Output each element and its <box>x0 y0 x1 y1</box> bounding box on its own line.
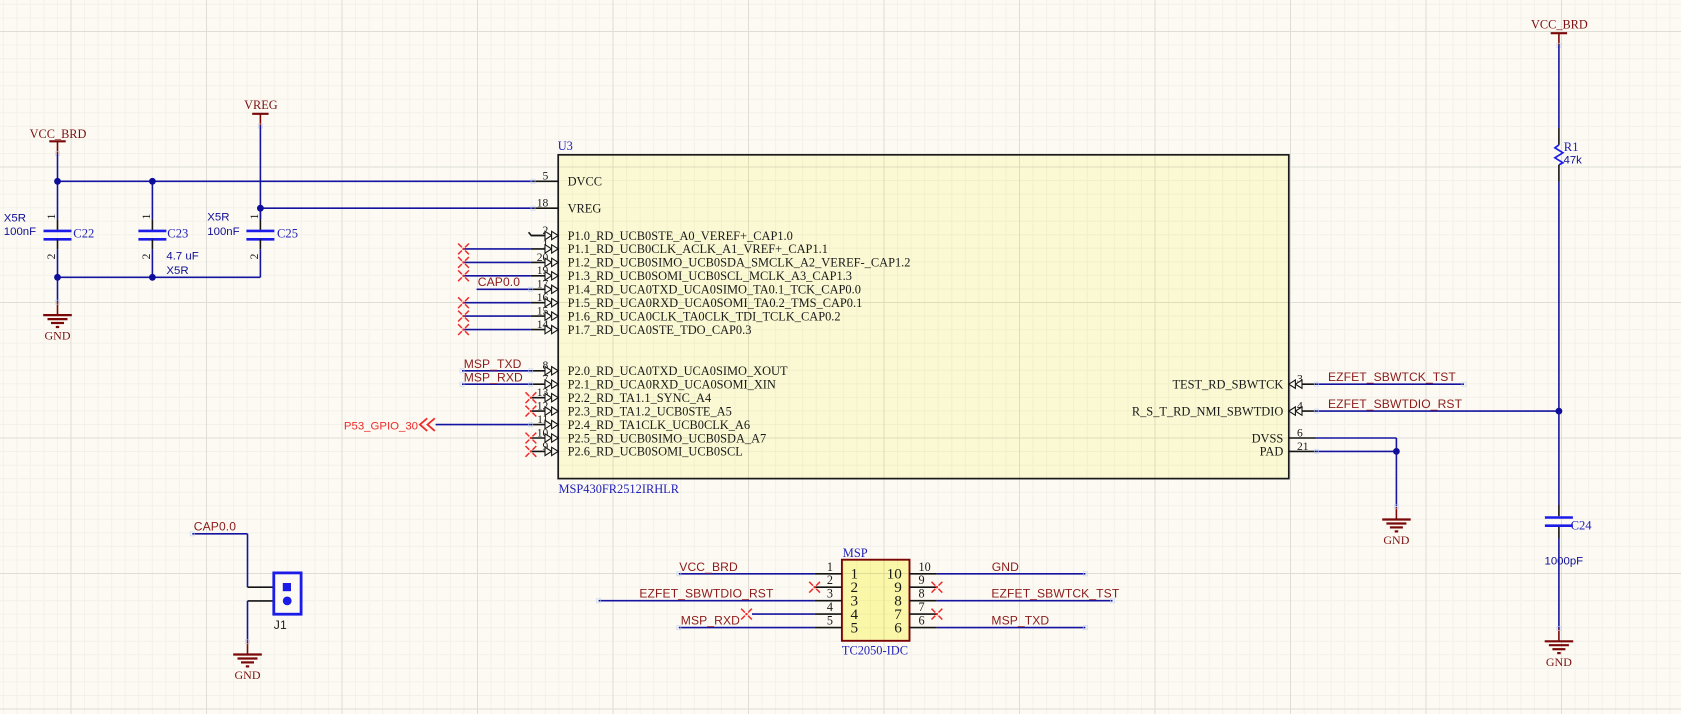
svg-text:1: 1 <box>141 213 153 219</box>
svg-text:P53_GPIO_30: P53_GPIO_30 <box>344 421 418 433</box>
svg-text:P2.6_RD_UCB0SOMI_UCB0SCL: P2.6_RD_UCB0SOMI_UCB0SCL <box>568 445 743 459</box>
svg-text:GND: GND <box>235 668 261 682</box>
svg-text:C22: C22 <box>73 227 94 241</box>
svg-text:1000pF: 1000pF <box>1545 556 1584 568</box>
svg-text:9: 9 <box>919 573 925 587</box>
svg-text:MSP_RXD: MSP_RXD <box>464 370 523 384</box>
svg-text:TC2050-IDC: TC2050-IDC <box>842 644 908 658</box>
svg-text:VCC_BRD: VCC_BRD <box>679 560 738 574</box>
svg-text:MSP: MSP <box>843 546 868 560</box>
svg-text:MSP_RXD: MSP_RXD <box>681 614 740 628</box>
svg-text:6: 6 <box>894 619 902 636</box>
svg-text:CAP0.0: CAP0.0 <box>478 275 520 289</box>
svg-text:P1.5_RD_UCA0RXD_UCA0SOMI_TA0.2: P1.5_RD_UCA0RXD_UCA0SOMI_TA0.2_TMS_CAP0.… <box>568 296 863 310</box>
svg-text:EZFET_SBWTDIO_RST: EZFET_SBWTDIO_RST <box>639 587 774 601</box>
svg-text:1: 1 <box>827 560 833 574</box>
svg-text:PAD: PAD <box>1260 445 1284 459</box>
svg-text:P1.6_RD_UCA0CLK_TA0CLK_TDI_TCL: P1.6_RD_UCA0CLK_TA0CLK_TDI_TCLK_CAP0.2 <box>568 309 841 323</box>
svg-text:VREG: VREG <box>244 98 278 112</box>
svg-text:4.7 uF: 4.7 uF <box>166 251 198 263</box>
svg-text:MSP430FR2512IRHLR: MSP430FR2512IRHLR <box>559 482 680 496</box>
svg-text:P2.1_RD_UCA0RXD_UCA0SOMI_XIN: P2.1_RD_UCA0RXD_UCA0SOMI_XIN <box>568 378 776 392</box>
svg-text:X5R: X5R <box>207 212 229 224</box>
svg-text:100nF: 100nF <box>207 226 239 238</box>
svg-text:MSP_TXD: MSP_TXD <box>991 614 1049 628</box>
svg-text:DVSS: DVSS <box>1252 431 1284 445</box>
svg-text:X5R: X5R <box>4 213 26 225</box>
svg-text:P1.3_RD_UCB0SOMI_UCB0SCL_MCLK_: P1.3_RD_UCB0SOMI_UCB0SCL_MCLK_A3_CAP1.3 <box>568 269 852 283</box>
svg-text:EZFET_SBWTCK_TST: EZFET_SBWTCK_TST <box>991 587 1119 601</box>
svg-text:P1.4_RD_UCA0TXD_UCA0SIMO_TA0.1: P1.4_RD_UCA0TXD_UCA0SIMO_TA0.1_TCK_CAP0.… <box>568 283 861 297</box>
svg-text:MSP_TXD: MSP_TXD <box>464 357 522 371</box>
svg-text:CAP0.0: CAP0.0 <box>194 520 236 534</box>
svg-text:U3: U3 <box>558 139 573 153</box>
svg-text:DVCC: DVCC <box>568 175 602 189</box>
svg-text:3: 3 <box>827 587 833 601</box>
svg-text:X5R: X5R <box>166 265 188 277</box>
svg-text:5: 5 <box>543 170 549 183</box>
svg-text:100nF: 100nF <box>4 226 36 238</box>
svg-text:VREG: VREG <box>568 202 602 216</box>
svg-text:P2.3_RD_TA1.2_UCB0STE_A5: P2.3_RD_TA1.2_UCB0STE_A5 <box>568 404 732 418</box>
svg-text:VCC_BRD: VCC_BRD <box>1531 18 1588 32</box>
svg-text:EZFET_SBWTDIO_RST: EZFET_SBWTDIO_RST <box>1328 397 1463 411</box>
svg-text:P1.7_RD_UCA0STE_TDO_CAP0.3: P1.7_RD_UCA0STE_TDO_CAP0.3 <box>568 323 752 337</box>
svg-text:6: 6 <box>1297 426 1303 439</box>
svg-text:21: 21 <box>1297 440 1309 453</box>
svg-text:P1.1_RD_UCB0CLK_ACLK_A1_VREF+_: P1.1_RD_UCB0CLK_ACLK_A1_VREF+_CAP1.1 <box>568 242 828 256</box>
svg-text:P2.0_RD_UCA0TXD_UCA0SIMO_XOUT: P2.0_RD_UCA0TXD_UCA0SIMO_XOUT <box>568 364 788 378</box>
svg-text:R_S_T_RD_NMI_SBWTDIO: R_S_T_RD_NMI_SBWTDIO <box>1132 404 1283 418</box>
svg-text:5: 5 <box>827 614 833 628</box>
svg-text:P2.4_RD_TA1CLK_UCB0CLK_A6: P2.4_RD_TA1CLK_UCB0CLK_A6 <box>568 418 750 432</box>
svg-text:10: 10 <box>919 560 931 574</box>
svg-text:P2.5_RD_UCB0SIMO_UCB0SDA_A7: P2.5_RD_UCB0SIMO_UCB0SDA_A7 <box>568 431 767 445</box>
svg-text:2: 2 <box>827 573 833 587</box>
svg-text:GND: GND <box>992 560 1019 574</box>
svg-text:18: 18 <box>537 197 549 210</box>
svg-text:2: 2 <box>46 253 58 259</box>
svg-text:R1: R1 <box>1564 140 1579 154</box>
svg-text:GND: GND <box>45 329 71 343</box>
svg-text:VCC_BRD: VCC_BRD <box>30 127 87 141</box>
svg-text:P1.0_RD_UCB0STE_A0_VEREF+_CAP1: P1.0_RD_UCB0STE_A0_VEREF+_CAP1.0 <box>568 229 793 243</box>
svg-text:1: 1 <box>249 213 261 219</box>
svg-text:C24: C24 <box>1571 519 1593 533</box>
svg-text:1: 1 <box>46 213 58 219</box>
svg-text:P1.2_RD_UCB0SIMO_UCB0SDA_SMCLK: P1.2_RD_UCB0SIMO_UCB0SDA_SMCLK_A2_VEREF-… <box>568 256 911 270</box>
svg-text:GND: GND <box>1546 655 1572 669</box>
svg-text:J1: J1 <box>274 618 287 632</box>
svg-text:4: 4 <box>827 600 833 614</box>
svg-text:5: 5 <box>851 619 859 636</box>
svg-text:EZFET_SBWTCK_TST: EZFET_SBWTCK_TST <box>1328 370 1456 384</box>
svg-text:6: 6 <box>919 614 925 628</box>
svg-text:2: 2 <box>141 253 153 259</box>
svg-text:TEST_RD_SBWTCK: TEST_RD_SBWTCK <box>1172 378 1283 392</box>
svg-text:GND: GND <box>1383 533 1409 547</box>
svg-text:7: 7 <box>919 600 925 614</box>
svg-text:C25: C25 <box>277 227 298 241</box>
svg-text:2: 2 <box>249 253 261 259</box>
svg-text:47k: 47k <box>1564 154 1583 166</box>
svg-text:C23: C23 <box>167 227 188 241</box>
svg-text:8: 8 <box>919 587 925 601</box>
svg-text:P2.2_RD_TA1.1_SYNC_A4: P2.2_RD_TA1.1_SYNC_A4 <box>568 391 712 405</box>
